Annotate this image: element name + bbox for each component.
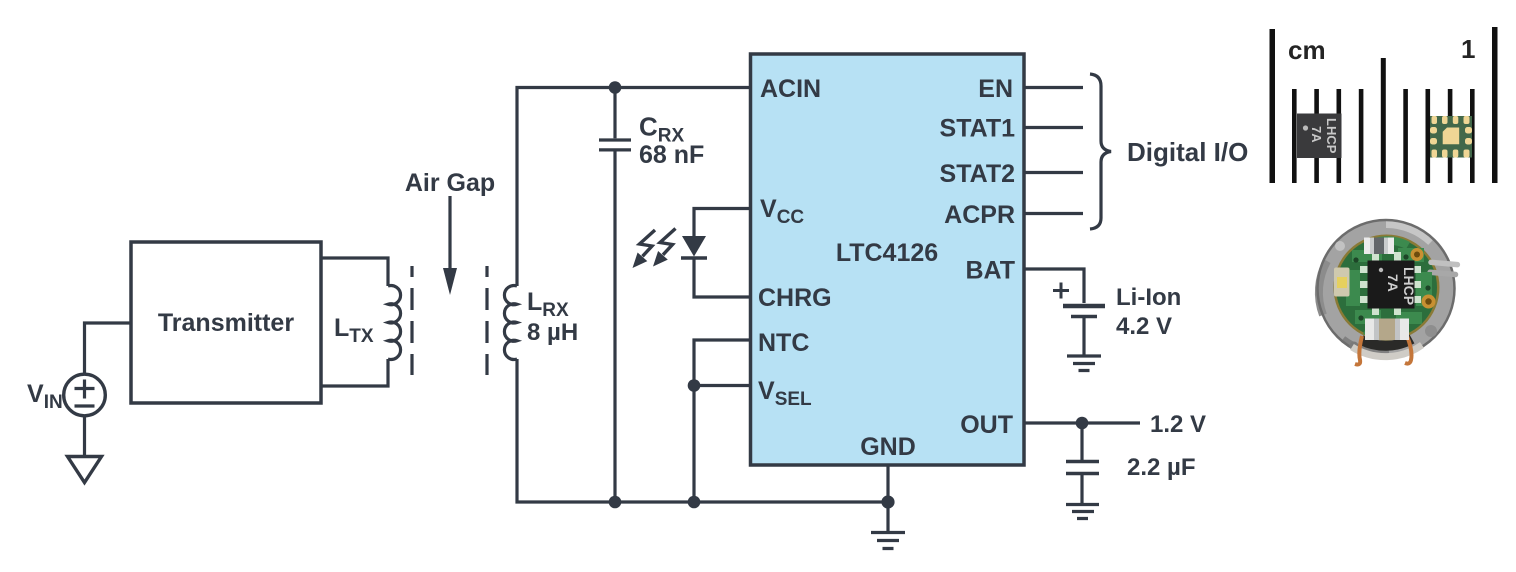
svg-text:EN: EN	[978, 75, 1013, 103]
wire transmitter to LTX (top)	[321, 258, 388, 286]
svg-text:VIN: VIN	[27, 380, 63, 413]
wire BAT	[1024, 269, 1084, 303]
ruler 0 cm mark	[1270, 29, 1276, 183]
IC U1 LTC4126	[751, 54, 1025, 465]
svg-text:7A: 7A	[1309, 126, 1324, 143]
chip pads left/right	[1360, 252, 1421, 315]
svg-text:7A: 7A	[1385, 274, 1401, 292]
gold standoffs	[1411, 248, 1424, 261]
vias	[1341, 244, 1430, 332]
pcb traces	[1346, 236, 1432, 339]
inductor LTX	[388, 286, 401, 360]
svg-text:CHRG: CHRG	[758, 284, 832, 312]
voltage source VIN	[64, 374, 106, 416]
battery plates	[1063, 304, 1105, 309]
capacitor CRX	[613, 88, 616, 139]
wire LRX to bottom rail	[517, 359, 888, 502]
wire EN stub	[1024, 86, 1083, 89]
wire LTX to transmitter (bottom)	[321, 359, 388, 386]
transmitter block	[131, 242, 321, 403]
metal case ring	[1317, 220, 1455, 358]
wire GND stub	[886, 465, 889, 532]
svg-text:STAT2: STAT2	[940, 160, 1015, 188]
svg-text:cm: cm	[1288, 35, 1326, 65]
svg-text:STAT1: STAT1	[940, 115, 1016, 143]
svg-text:LHCP: LHCP	[1401, 267, 1417, 305]
left LED component	[1334, 268, 1350, 297]
svg-text:ACPR: ACPR	[944, 201, 1015, 229]
node OUT	[1076, 417, 1089, 430]
svg-text:Transmitter: Transmitter	[158, 309, 294, 337]
wire VIN to transmitter	[85, 323, 132, 375]
node GND	[881, 495, 894, 508]
LED D1	[682, 236, 706, 257]
svg-text:LTC4126: LTC4126	[836, 239, 938, 267]
air-gap boundary (left dashed)	[410, 266, 413, 375]
copper coil wires	[1355, 336, 1412, 365]
wire LED to CHRG	[694, 258, 750, 297]
node VSEL	[688, 379, 701, 392]
svg-text:Air Gap: Air Gap	[405, 169, 495, 197]
photo: wireless charging receiver PCB module	[1317, 220, 1460, 365]
wire OUT	[1024, 421, 1140, 424]
svg-text:68 nF: 68 nF	[639, 141, 704, 169]
air-gap arrow	[448, 196, 451, 270]
svg-text:LTX: LTX	[334, 314, 374, 347]
wire STAT2 stub	[1024, 171, 1083, 174]
ground (IC)	[871, 533, 905, 549]
svg-text:LHCP: LHCP	[1324, 118, 1339, 154]
ground (out capacitor)	[1066, 505, 1099, 519]
svg-text:BAT: BAT	[965, 257, 1015, 285]
wire NTC	[694, 340, 750, 386]
svg-text:NTC: NTC	[758, 329, 809, 357]
svg-text:Li-Ion: Li-Ion	[1116, 284, 1181, 311]
photo: cm ruler with chip packages	[1270, 27, 1498, 183]
svg-text:LRX: LRX	[527, 288, 569, 321]
svg-text:1: 1	[1461, 34, 1475, 64]
wire ACPR stub	[1024, 212, 1083, 215]
node CRX bottom	[609, 496, 622, 509]
svg-text:OUT: OUT	[960, 411, 1013, 439]
node VSEL bottom	[688, 496, 701, 509]
bottom component	[1365, 319, 1409, 341]
top capacitor component	[1364, 238, 1394, 255]
LED emission arrows	[633, 229, 676, 269]
ground (VIN)	[68, 457, 102, 483]
svg-text:1.2 V: 1.2 V	[1150, 411, 1206, 438]
svg-text:8 µH: 8 µH	[527, 319, 578, 346]
chip package (top view)	[1297, 114, 1342, 159]
inductor LRX	[504, 286, 517, 360]
svg-text:2.2 µF: 2.2 µF	[1127, 454, 1196, 481]
wire LRX to top rail (ACIN)	[517, 88, 750, 287]
ground (battery)	[1067, 356, 1101, 371]
wire VSEL	[694, 384, 750, 387]
chip package (bottom view QFN)	[1430, 116, 1472, 158]
air-gap boundary (right dashed)	[485, 266, 488, 375]
wire VSEL node to bottom rail	[692, 386, 695, 503]
node CRX top	[609, 81, 622, 94]
connector pins	[1427, 259, 1460, 277]
green PCB disc	[1334, 235, 1440, 341]
wire VCC to LED	[694, 209, 750, 237]
chip on PCB	[1368, 261, 1415, 309]
ruler 1 cm mark	[1492, 27, 1498, 183]
wire VIN to ground	[83, 416, 86, 458]
ruler 5 mm mark	[1381, 58, 1386, 183]
brace digital I/O	[1090, 74, 1111, 229]
can interior dark gap (bottom)	[1361, 339, 1412, 346]
svg-text:GND: GND	[860, 433, 916, 461]
svg-text:4.2 V: 4.2 V	[1116, 313, 1172, 340]
battery Li-Ion : plus sign	[1053, 283, 1069, 299]
svg-text:ACIN: ACIN	[760, 75, 821, 103]
svg-text:Digital I/O: Digital I/O	[1127, 137, 1248, 167]
wire STAT1 stub	[1024, 126, 1083, 129]
ruler mm marks	[1292, 89, 1297, 183]
capacitor COUT	[1080, 423, 1083, 460]
